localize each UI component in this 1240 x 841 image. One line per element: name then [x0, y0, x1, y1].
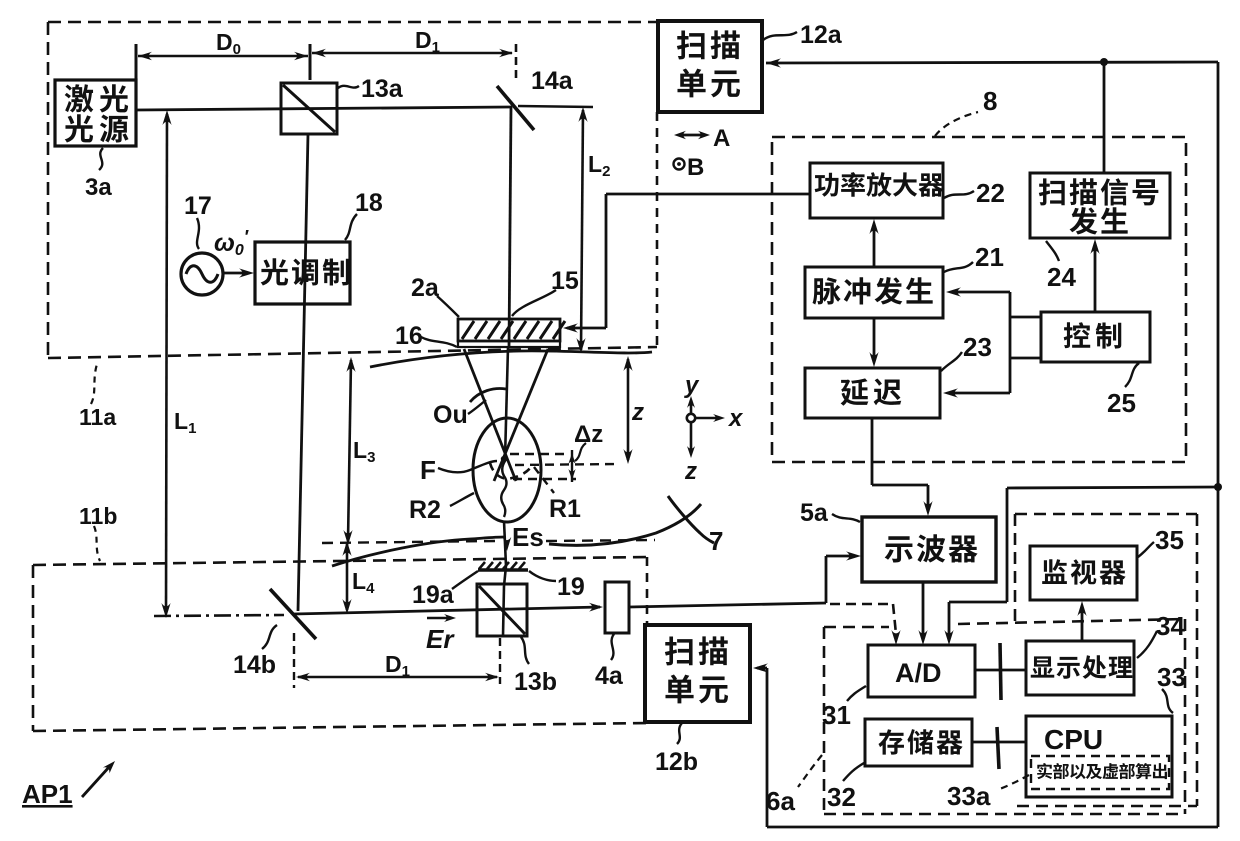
svg-text:16: 16 [395, 322, 423, 350]
transducer 15 hatched bar [458, 319, 560, 341]
label 25 [1125, 363, 1139, 387]
arrow display proc to monitor [1081, 607, 1084, 641]
label 2a [437, 296, 459, 317]
svg-text:Er: Er [426, 624, 455, 654]
dimension L3 [348, 360, 351, 541]
beam from modulator down to 14b [298, 134, 308, 611]
chief ray to focus [505, 347, 508, 459]
svg-text:34: 34 [1156, 611, 1185, 641]
oscillator 17 [181, 253, 223, 295]
wire power amplifier to transducer [606, 193, 810, 196]
label 18 [345, 214, 357, 240]
label 14b [262, 625, 277, 649]
label 12b [677, 723, 682, 744]
svg-text:31: 31 [822, 700, 851, 730]
label 32 [843, 763, 864, 781]
delta z arrows [571, 450, 573, 482]
svg-text:33a: 33a [947, 781, 991, 811]
svg-text:R1: R1 [549, 495, 581, 523]
dashed enclosure 6a [824, 626, 889, 629]
svg-text:z: z [684, 458, 697, 485]
svg-text:x: x [727, 405, 744, 432]
image plane dashed line [322, 541, 495, 543]
beam axis dash-dot left [154, 615, 284, 616]
svg-text:17: 17 [184, 192, 212, 220]
sample upper surface [370, 351, 652, 367]
beam 14a down to sample [509, 107, 511, 347]
control 25 控制 [1041, 312, 1150, 362]
dot B indicator [674, 159, 685, 170]
dimension L2 with extension [518, 106, 593, 107]
svg-text:F: F [420, 455, 436, 485]
arrow oscillator to modulator [223, 272, 246, 275]
A/D converter 31 [868, 645, 975, 697]
objective lens ellipse Ou [473, 418, 541, 522]
label Ou with aperture arc [468, 400, 486, 414]
dashed enclosure 33 display section [1015, 513, 1197, 516]
svg-text:A: A [713, 125, 730, 152]
box 3a laser source 激光光源 [55, 80, 136, 146]
label 11b [94, 526, 100, 561]
break curve 7 [668, 496, 714, 543]
cone of rays [464, 349, 516, 481]
svg-text:12a: 12a [800, 21, 843, 49]
svg-text:2a: 2a [411, 274, 440, 302]
thin lens 19 [478, 568, 528, 572]
wire scan branch to A/D right input [1007, 487, 1218, 488]
label 24 [1046, 241, 1059, 261]
svg-text:4a: 4a [595, 662, 624, 690]
label 6a [798, 755, 822, 787]
beam 14b to 4a [294, 607, 600, 614]
svg-text:CPU: CPU [1044, 724, 1103, 755]
oscilloscope 5a 示波器 [862, 517, 996, 582]
display processing 34 显示处理 [1026, 641, 1134, 695]
svg-text:Ou: Ou [433, 401, 468, 429]
dimension D1 bottom [298, 676, 497, 678]
svg-text:33: 33 [1157, 662, 1186, 692]
Er arrow [427, 617, 449, 620]
svg-text:7: 7 [709, 526, 723, 556]
pulse generator 21 脉冲发生 [805, 267, 943, 318]
mirror 14b [270, 589, 316, 639]
label 4a [611, 634, 614, 660]
dimension L1 [166, 114, 167, 613]
coordinate axes [687, 414, 695, 422]
main beam laser to 13a to 14a [136, 107, 512, 110]
svg-text:14b: 14b [233, 651, 276, 679]
dashed wire to A/D left input [830, 603, 893, 606]
svg-text:12b: 12b [655, 748, 698, 776]
scan unit 12a 扫描单元 [658, 21, 762, 112]
inner dashed box 33a 实部以及虚部算出 [1031, 756, 1169, 789]
svg-text:18: 18 [355, 189, 383, 217]
svg-text:15: 15 [551, 267, 579, 295]
svg-text:ω0′: ω0′ [214, 227, 249, 259]
beam splitter 13b [477, 584, 527, 636]
label 16 [421, 337, 457, 347]
power amplifier 22 功率放大器 [810, 163, 943, 218]
svg-text:13b: 13b [514, 668, 557, 696]
svg-text:19: 19 [557, 573, 585, 601]
svg-text:13a: 13a [361, 75, 404, 103]
label 17 [197, 218, 199, 249]
wire 4a to oscilloscope [629, 603, 826, 607]
label 22 [944, 191, 974, 198]
wire delay to oscilloscope [871, 418, 874, 485]
label 35 [1138, 542, 1154, 557]
arrow pulse gen to delay [873, 318, 876, 360]
wavefront R1 dashed arc [490, 463, 533, 479]
dimension z [627, 359, 630, 460]
detector 4a [605, 582, 629, 633]
svg-text:5a: 5a [800, 499, 829, 527]
label R2 [450, 493, 474, 506]
label 11a [91, 364, 97, 404]
layer 16 [458, 341, 560, 347]
svg-text:21: 21 [975, 242, 1004, 272]
bus A/D to display processing [975, 669, 1026, 672]
svg-text:6a: 6a [766, 786, 795, 816]
bus memory to CPU [972, 741, 1026, 744]
label 19 [529, 571, 556, 581]
scan signal generator 24 扫描信号发生 [1030, 173, 1170, 238]
label 5a [832, 514, 860, 522]
svg-text:A/D: A/D [895, 658, 942, 688]
svg-text:11a: 11a [79, 404, 116, 430]
label 33 [1162, 689, 1173, 713]
svg-text:Es: Es [512, 522, 544, 552]
label 13a [338, 86, 359, 88]
scan unit 12b 扫描单元 [645, 625, 750, 722]
label 3a [99, 148, 103, 170]
svg-text:11b: 11b [79, 503, 117, 529]
wire scan signal to scan units [766, 58, 781, 67]
svg-text:3a: 3a [85, 174, 112, 201]
mirror 14a [497, 86, 534, 130]
dashed enclosure 11b [33, 557, 647, 565]
svg-text:B: B [687, 154, 704, 181]
dashed enclosure 8 [772, 137, 1186, 462]
memory 32 存储器 [865, 719, 972, 766]
label 19a [452, 571, 478, 589]
label 13b [521, 637, 529, 664]
svg-text:25: 25 [1107, 388, 1136, 418]
sample lower surface left [332, 537, 504, 566]
svg-text:23: 23 [963, 332, 992, 362]
CPU 33 [1026, 716, 1172, 797]
svg-text:14a: 14a [531, 67, 574, 95]
label 12a [763, 32, 797, 40]
delay 23 延迟 [805, 368, 940, 418]
svg-text:32: 32 [827, 782, 856, 812]
svg-text:19a: 19a [412, 581, 455, 609]
svg-text:Δz: Δz [574, 421, 603, 448]
arrow pulse gen to power amp [873, 226, 876, 267]
beam through lens 19 and 13b [504, 566, 506, 586]
acoustic squiggle below focus [501, 461, 506, 517]
svg-text:22: 22 [976, 178, 1005, 208]
modulator 18 光调制 [255, 242, 350, 304]
arrow A indicator [678, 134, 706, 137]
dimension D0 [138, 55, 308, 57]
label 15 [512, 290, 556, 316]
beam splitter 13a [281, 83, 337, 134]
svg-text:y: y [684, 372, 700, 399]
label 8 leader [935, 112, 978, 136]
dimension D1 top [312, 52, 512, 54]
svg-text:AP1: AP1 [22, 779, 73, 809]
wire oscilloscope to A/D [922, 583, 925, 636]
label 31 [847, 686, 866, 701]
label 21 [944, 262, 973, 272]
focus F [501, 456, 507, 462]
junction node [1214, 483, 1222, 491]
svg-text:R2: R2 [409, 496, 441, 524]
dashed enclosure 11a [48, 21, 658, 24]
dimension L4 [346, 544, 349, 610]
beam below lens: Es arrow [504, 521, 506, 566]
monitor 35 监视器 [1030, 546, 1137, 600]
wires control to pulse gen and delay [1010, 316, 1041, 319]
svg-text:8: 8 [983, 86, 997, 116]
arrow control to scan signal gen [1094, 245, 1097, 312]
svg-text:24: 24 [1047, 262, 1076, 292]
svg-text:z: z [631, 399, 644, 426]
sample lower surface right [549, 504, 701, 545]
dashed reference lines delta-z [510, 453, 568, 455]
label 23 [941, 352, 962, 371]
svg-text:35: 35 [1155, 525, 1184, 555]
label 34 [1137, 631, 1157, 658]
label 33a [997, 775, 1029, 790]
